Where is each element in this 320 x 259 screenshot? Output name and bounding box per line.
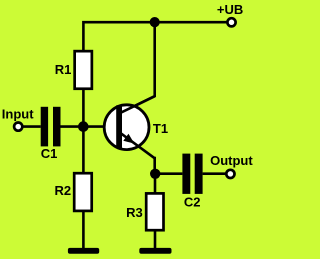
svg-text:R2: R2 — [55, 183, 72, 198]
wire emitter node to C2 — [155, 172, 182, 175]
svg-text:T1: T1 — [153, 121, 168, 136]
wire input terminal to C1 — [23, 125, 41, 128]
svg-text:Input: Input — [2, 106, 34, 121]
wire C2 to output terminal — [203, 172, 226, 175]
svg-text:C2: C2 — [184, 194, 201, 209]
capacitor C2 — [182, 154, 202, 194]
wire C1 to transistor base — [61, 125, 106, 128]
terminal Output — [226, 170, 234, 178]
wire R2 bottom to ground — [82, 212, 85, 249]
resistor R1 — [75, 51, 92, 89]
terminal +UB — [227, 18, 235, 26]
transistor T1 — [104, 96, 155, 158]
wire emitter diagonal to emitter node — [153, 158, 156, 173]
svg-text:R3: R3 — [126, 205, 143, 220]
node emitter junction dot — [150, 169, 160, 179]
svg-text:Output: Output — [210, 153, 253, 168]
wire collector vertical from top rail down then diagonal to transistor — [121, 21, 155, 113]
node top junction dot — [150, 17, 160, 27]
wire base node down to R2 — [82, 127, 85, 172]
wire top rail from R1 top to +UB terminal — [83, 22, 227, 51]
ground left — [68, 248, 99, 254]
wire emitter node down to R3 — [154, 174, 157, 193]
wire R1 bottom to base node — [82, 89, 85, 127]
node base junction dot — [78, 121, 89, 132]
svg-text:R1: R1 — [55, 62, 72, 77]
wire R3 bottom to ground — [154, 231, 157, 249]
terminal Input — [14, 123, 22, 131]
resistor R2 — [74, 173, 92, 211]
ground right — [139, 248, 171, 254]
resistor R3 — [146, 193, 163, 230]
svg-text:+UB: +UB — [217, 2, 243, 17]
svg-text:C1: C1 — [41, 146, 58, 161]
capacitor C1 — [41, 107, 61, 147]
